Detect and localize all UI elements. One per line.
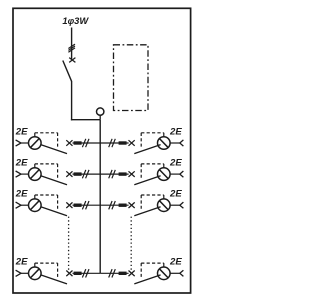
panel border frame [13,8,191,293]
breaker slash (left branch 1) [31,139,40,148]
wire X to bus (left branch 4) [73,272,101,274]
connector circle-to-dashed-box (right branch 1) [163,133,165,137]
vertical bus [99,120,101,274]
switch blade (left branch 1) [41,145,67,154]
contact cross X (right branch 1) [129,140,135,146]
thick bar on wire (right branch 4) [119,272,127,275]
svg-text:2E: 2E [15,257,28,268]
dashed box top edge (left branch 2) [35,163,58,165]
main switch contact cross X [69,58,75,63]
breaker slash (right branch 2) [159,170,168,179]
switch blade (right branch 2) [134,176,160,185]
conductor count slashes (left branch 2) [82,170,89,178]
chevron wire-end arrow (left branch 4) [16,270,21,276]
wire X to bus (left branch 1) [73,142,101,144]
conductor count slashes (right branch 3) [109,201,116,209]
connector circle-to-dashed-box (left branch 3) [34,195,36,199]
conductor count slashes (right branch 4) [109,269,116,277]
chevron wire-end arrow (left branch 1) [16,140,21,146]
breaker circle (left branch 2) [29,168,42,181]
svg-text:2E: 2E [15,189,28,200]
connector circle-to-dashed-box (left branch 2) [34,164,36,168]
breaker circle (right branch 2) [158,168,171,181]
conductor count slashes (left branch 3) [82,201,89,209]
conductor count slashes (right branch 1) [109,139,116,147]
connector circle-to-dashed-box (right branch 4) [163,263,165,267]
wire bus to X (right branch 4) [100,272,128,274]
thick bar on wire (left branch 2) [74,172,82,175]
chevron wire-end arrow (right branch 1) [180,140,184,146]
dashed box top edge (right branch 4) [141,262,164,264]
breaker circle (right branch 1) [158,137,171,150]
breaker slash (right branch 3) [159,201,168,210]
main switch blade [63,61,72,82]
contact cross X (left branch 1) [66,140,72,146]
wire chevron to breaker (left branch 1) [21,142,28,144]
breaker slash (left branch 2) [31,170,40,179]
wire breaker to chevron (right branch 3) [170,204,180,206]
dashed box top edge (right branch 3) [141,194,164,196]
switch blade (right branch 3) [134,207,160,216]
dashed box top edge (left branch 1) [35,132,58,134]
node stub [99,115,101,119]
chevron wire-end arrow (right branch 3) [180,202,184,208]
dashed box right edge (left branch 3) [57,195,59,209]
breaker slash (right branch 1) [159,139,168,148]
dashed box right edge (left branch 2) [57,164,59,178]
breaker circle (right branch 3) [158,199,171,212]
dash-dot enclosure box [114,45,149,111]
chevron wire-end arrow (right branch 4) [180,270,184,276]
dashed box left edge (right branch 1) [140,133,142,147]
wire horizontal to bus top [71,119,100,121]
chevron wire-end arrow (left branch 3) [16,202,21,208]
wire chevron to breaker (left branch 2) [21,173,28,175]
svg-text:2E: 2E [169,126,182,137]
thick bar on wire (right branch 3) [119,204,127,207]
dotted link right (branch 3 blade tip to branch 4 contact) [130,217,132,270]
wire bus to X (right branch 2) [100,173,128,175]
contact cross X (right branch 4) [129,271,135,277]
conductor count slashes (left branch 1) [82,139,89,147]
breaker circle (left branch 3) [29,199,42,212]
breaker circle (left branch 4) [29,267,42,280]
breaker slash (left branch 3) [31,201,40,210]
feeder 3-conductor slashes [68,44,75,52]
dashed box left edge (right branch 3) [140,195,142,209]
dashed box top edge (left branch 3) [35,194,58,196]
dashed box left edge (right branch 2) [140,164,142,178]
wire bus to X (right branch 1) [100,142,128,144]
svg-text:1φ3W: 1φ3W [62,15,89,26]
wire breaker to chevron (right branch 2) [170,173,180,175]
contact cross X (right branch 3) [129,202,135,208]
thick bar on wire (left branch 1) [74,141,82,144]
switch blade (right branch 4) [134,275,160,284]
contact cross X (left branch 4) [66,271,72,277]
switch blade (right branch 1) [134,145,160,154]
wire chevron to breaker (left branch 3) [21,204,28,206]
chevron wire-end arrow (left branch 2) [16,171,21,177]
connector circle-to-dashed-box (left branch 1) [34,133,36,137]
breaker circle (right branch 4) [158,267,171,280]
thick bar on wire (left branch 3) [74,204,82,207]
breaker slash (right branch 4) [159,269,168,278]
dashed box top edge (right branch 1) [141,132,164,134]
switch blade (left branch 3) [41,207,67,216]
wire breaker to chevron (right branch 1) [170,142,180,144]
svg-text:2E: 2E [169,189,182,200]
svg-text:2E: 2E [15,126,28,137]
chevron wire-end arrow (right branch 2) [180,171,184,177]
thick bar on wire (right branch 2) [119,172,127,175]
thick bar on wire (right branch 1) [119,141,127,144]
wire X to bus (left branch 2) [73,173,101,175]
breaker slash (left branch 4) [31,269,40,278]
contact cross X (left branch 3) [66,202,72,208]
connector circle-to-dashed-box (left branch 4) [34,263,36,267]
connector circle-to-dashed-box (right branch 3) [163,195,165,199]
svg-text:2E: 2E [15,157,28,168]
wire X to bus (left branch 3) [73,204,101,206]
svg-text:2E: 2E [169,257,182,268]
breaker circle (left branch 1) [29,137,42,150]
wire breaker to chevron (right branch 4) [170,272,180,274]
service feeder wire [71,28,73,60]
node circle [97,108,104,115]
switch blade (left branch 2) [41,176,67,185]
wire chevron to breaker (left branch 4) [21,272,28,274]
contact cross X (left branch 2) [66,171,72,177]
wire bus to X (right branch 3) [100,204,128,206]
switch blade (left branch 4) [41,275,67,284]
dashed box right edge (left branch 1) [57,133,59,147]
conductor count slashes (right branch 2) [109,170,116,178]
dotted link left (branch 3 blade tip to branch 4 contact) [68,217,70,270]
dashed box top edge (right branch 2) [141,163,164,165]
svg-text:2E: 2E [169,157,182,168]
connector circle-to-dashed-box (right branch 2) [163,164,165,168]
dashed box right edge (left branch 4) [57,263,59,277]
dashed box left edge (right branch 4) [140,263,142,277]
contact cross X (right branch 2) [129,171,135,177]
dashed box top edge (left branch 4) [35,262,58,264]
wire main switch down [71,81,73,120]
conductor count slashes (left branch 4) [82,269,89,277]
thick bar on wire (left branch 4) [74,272,82,275]
